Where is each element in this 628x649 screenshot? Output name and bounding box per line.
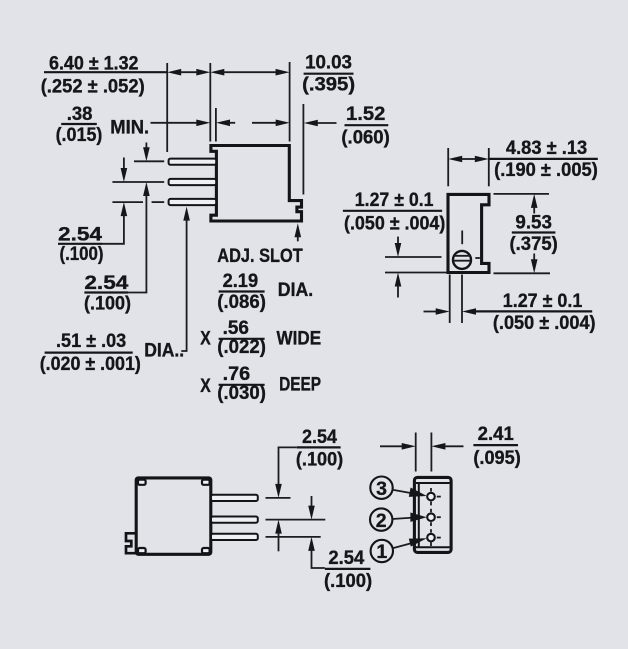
dimension 1.52: left shaft <box>252 122 278 124</box>
screw slot line lower <box>453 260 471 262</box>
adjustment screw circle <box>453 251 471 269</box>
extension line at body right edge <box>289 62 291 142</box>
4.83 dim: left extension line <box>447 148 449 186</box>
fraction bar .51 <box>45 352 133 354</box>
dimension 10.03: left arrow <box>210 69 224 76</box>
pin 2 hole (middle) <box>427 513 435 521</box>
fraction bar .56 <box>219 338 265 340</box>
fraction bar 2.19 <box>219 290 265 292</box>
fraction bar 2.54 dim B <box>325 568 371 570</box>
svg-text:(.100): (.100) <box>60 243 104 265</box>
dimension 1.52: tail to fraction bar <box>317 122 337 124</box>
2.54 dim B: up arrow below ext3 with elbow to text <box>308 537 315 551</box>
circled terminal number 2 <box>370 508 392 530</box>
svg-text:1.52: 1.52 <box>346 103 385 125</box>
svg-text:(.100): (.100) <box>296 449 343 471</box>
svg-text:(.020 ± .001): (.020 ± .001) <box>40 353 141 375</box>
9.53 dim: up arrow <box>531 194 538 208</box>
2.54 pitch dim: down arrow at lead1 <box>145 143 147 150</box>
svg-text:2: 2 <box>376 510 387 532</box>
dimension 10.03: right arrow <box>276 69 290 76</box>
svg-text:(.030): (.030) <box>217 382 266 404</box>
body outline (pin view) <box>414 477 451 552</box>
circled terminal number 1 <box>371 540 393 562</box>
1.27 bottom dim: right extension line <box>461 275 463 324</box>
svg-text:DIA.: DIA. <box>278 279 313 301</box>
svg-text:.38: .38 <box>67 103 93 125</box>
lead 3 (side view) <box>169 199 217 205</box>
pitch ext line 2 (top view) <box>266 519 326 521</box>
1.27 bottom dim: left extension line <box>449 275 451 324</box>
pitch ext line 1 (top view) <box>266 497 291 499</box>
9.53 dim: down arrow <box>531 259 538 273</box>
corner post top-left <box>138 480 146 485</box>
fraction bar 2.41 <box>473 444 518 446</box>
trimmer body outline (side view) <box>211 146 302 222</box>
dimension 6.40: left arrow <box>167 69 181 76</box>
svg-text:3: 3 <box>376 478 387 500</box>
lead pitch ext line 2 <box>112 181 164 183</box>
screw centerline dash above <box>461 231 463 245</box>
4.83 dim: arrows and shaft <box>448 156 462 163</box>
dimension 1.52: right-pointing arrow at body edge <box>276 120 290 127</box>
svg-text:X: X <box>200 328 211 350</box>
fraction bar 2.54 first <box>58 243 102 245</box>
screw slot line upper <box>453 255 470 257</box>
dimension 6.40: leader/fraction bar <box>44 71 167 73</box>
dimension 10.03: shaft <box>222 71 278 73</box>
svg-text:(.252 ± .052): (.252 ± .052) <box>41 76 145 98</box>
svg-text:(.100): (.100) <box>324 570 372 592</box>
4.83 dim: leader to fraction bar <box>489 158 598 160</box>
svg-text:1: 1 <box>376 541 387 563</box>
svg-text:2.54: 2.54 <box>84 272 128 294</box>
dimension 1.52: left-pointing arrow at slot line <box>304 120 318 127</box>
dimension .38 MIN: right tail <box>229 122 236 124</box>
1.27 left dim: lower extension line <box>385 272 447 274</box>
svg-text:6.40 ± 1.32: 6.40 ± 1.32 <box>49 52 139 74</box>
9.53 dim: bottom extension line <box>494 272 551 274</box>
fraction bar 2.54 dim A <box>297 446 341 448</box>
svg-text:(.190 ± .005): (.190 ± .005) <box>494 159 598 181</box>
svg-text:DIA..: DIA.. <box>144 340 184 362</box>
fraction bar 1.27 left <box>343 210 442 212</box>
pin 3 hole (top) <box>427 493 435 501</box>
inner left line <box>418 483 420 547</box>
lead 3 (top view) <box>211 534 258 540</box>
2.41 dim: left arrow with tail <box>380 445 403 447</box>
9.53 dim: top extension line <box>494 193 550 195</box>
extension line at lead tips <box>166 63 168 152</box>
inner bottom line <box>416 546 450 548</box>
fraction bar .38 <box>61 123 97 125</box>
svg-text:(.086): (.086) <box>217 291 266 313</box>
svg-text:(.395): (.395) <box>302 73 355 95</box>
dimension .38 MIN: left-pointing arrow at inset line <box>216 120 230 127</box>
lead 2 (side view) <box>169 179 217 185</box>
pin hole centerline dashes <box>430 488 432 492</box>
svg-text:(.375): (.375) <box>510 233 558 255</box>
trimmer body outline (top view) <box>136 478 211 554</box>
svg-text:2.41: 2.41 <box>478 423 514 445</box>
1.27 left dim: down arrow <box>397 237 399 245</box>
adjustment slot profile (left side of top view) <box>126 533 137 553</box>
1.27 left dim: up arrow <box>395 273 402 287</box>
circled terminal number 3 <box>370 477 392 499</box>
corner post top-right <box>202 480 210 485</box>
2.41 dim: right extension line <box>430 433 432 472</box>
screw centerline dash right <box>475 257 480 259</box>
fraction bar .76 <box>219 384 265 386</box>
inner top line <box>416 482 450 484</box>
svg-text:(.095): (.095) <box>473 447 520 469</box>
svg-text:9.53: 9.53 <box>515 211 552 233</box>
4.83 dim: right extension line <box>488 148 490 186</box>
svg-text:WIDE: WIDE <box>277 328 322 350</box>
dimension .38 MIN: right-pointing arrow at tab line <box>196 120 210 127</box>
svg-text:X: X <box>200 375 211 397</box>
dimension .38 MIN: leader from text <box>151 122 199 124</box>
svg-text:1.27 ± 0.1: 1.27 ± 0.1 <box>355 189 434 211</box>
fraction bar 1.52 <box>345 124 389 126</box>
svg-text:.51 ± .03: .51 ± .03 <box>56 330 126 352</box>
dimension 6.40: shaft <box>179 71 198 73</box>
fraction bar 2.54 second <box>84 291 128 293</box>
svg-text:2.19: 2.19 <box>223 270 259 292</box>
ADJ. SLOT leader arrow <box>295 223 302 237</box>
svg-text:2.54: 2.54 <box>328 547 364 569</box>
leader from 1 to bottom pin <box>393 543 414 549</box>
2.54 dim A: elbow from text and down arrow <box>279 447 297 486</box>
2.41 dim: left extension line <box>415 433 417 472</box>
svg-text:(.050 ± .004): (.050 ± .004) <box>493 312 596 334</box>
leader from 2 to middle pin <box>392 518 413 519</box>
pitch ext line 3 (top view) <box>266 536 321 538</box>
svg-text:2.54: 2.54 <box>302 426 337 448</box>
svg-text:DEEP: DEEP <box>279 374 321 396</box>
svg-text:(.060): (.060) <box>341 126 389 148</box>
fraction bar 10.03 <box>304 73 354 75</box>
extension line at slot right edge <box>302 104 304 195</box>
svg-text:(.015): (.015) <box>56 124 103 146</box>
lead pitch ext line 1 <box>134 160 164 162</box>
2.54 pitch dim: down arrow at lead2 <box>123 158 125 170</box>
corner post bottom-right <box>202 548 210 553</box>
corner post bottom-left <box>138 548 146 553</box>
lead 2 (top view) <box>211 517 258 523</box>
lead pitch ext line 3 (with gap) <box>112 201 143 203</box>
.51 DIA leader arrow to lead 3 <box>183 207 190 221</box>
2.41 dim: right arrow with tail <box>431 443 445 450</box>
2.54 dim B: down arrow above ext2 <box>311 496 313 507</box>
leader from 3 to top pin <box>393 490 415 494</box>
lead 1 (side view) <box>169 159 217 165</box>
fraction bar 9.53 <box>512 231 556 233</box>
1.27 bottom dim: left arrow with tail <box>424 311 438 313</box>
extension line at body inset edge <box>215 108 217 142</box>
svg-text:MIN.: MIN. <box>110 116 149 138</box>
svg-text:1.27 ± 0.1: 1.27 ± 0.1 <box>503 290 583 312</box>
2.54 pitch dim: up arrow below lead3 with tail to text <box>121 202 128 216</box>
extension line at body left tab <box>209 63 211 142</box>
dimension 6.40: right arrow <box>196 69 210 76</box>
svg-text:10.03: 10.03 <box>305 52 352 74</box>
lead 1 (top view) <box>211 495 258 501</box>
svg-text:ADJ. SLOT: ADJ. SLOT <box>217 245 302 267</box>
1.27 left dim: upper extension line <box>385 256 442 258</box>
2.54 pitch dim: up arrow below lead2 with tail to text <box>143 182 150 196</box>
svg-text:4.83 ± .13: 4.83 ± .13 <box>506 137 587 159</box>
1.27 bottom dim: right arrow with leader to bar <box>462 308 476 315</box>
svg-text:(.050 ± .004): (.050 ± .004) <box>344 212 445 234</box>
pin 1 hole (bottom) <box>427 534 435 542</box>
svg-text:(.022): (.022) <box>217 336 266 358</box>
2.54 dim A: up arrow below ext2 <box>275 520 282 534</box>
svg-text:(.100): (.100) <box>84 293 131 315</box>
trimmer body outline (end view) <box>448 194 489 272</box>
